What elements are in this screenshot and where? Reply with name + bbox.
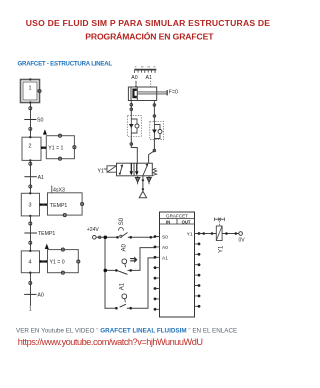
- svg-text:USO DE FLUID SIM P PARA: USO DE FLUID SIM P PARA SIMULAR ESTRUCTU…: [26, 18, 270, 28]
- action box Y1=1: [46, 134, 76, 160]
- step 2: [22, 136, 41, 162]
- svg-text:https://www.youtube.com/watch?: https://www.youtube.com/watch?v=hjhWunuu…: [18, 337, 203, 347]
- switch S0: [116, 217, 155, 238]
- node: [29, 241, 32, 244]
- cylinder port wires: [131, 101, 154, 122]
- exhaust left: [135, 176, 140, 185]
- piston rod: [137, 90, 167, 95]
- action box Y1=0: [48, 248, 80, 274]
- svg-text:4: 4: [29, 260, 32, 266]
- solenoid box: [104, 166, 117, 172]
- wire left port: [130, 101, 132, 116]
- valve bold path left arrow: [130, 163, 134, 175]
- switch A0: [107, 243, 155, 274]
- svg-text:1: 1: [29, 306, 32, 312]
- rising edge arrow step2: [43, 129, 47, 134]
- block input pins: [155, 237, 160, 310]
- node on right port wire: [153, 104, 156, 107]
- node: [29, 162, 32, 165]
- svg-text:A1: A1: [38, 175, 44, 181]
- node on right valve wire: [153, 149, 156, 152]
- node on Y1 wire: [202, 232, 205, 235]
- +24V terminal: [93, 236, 97, 240]
- transition S0: [24, 118, 43, 124]
- rising edge arrow step4: [45, 244, 49, 249]
- svg-text:A0: A0: [131, 75, 137, 81]
- initial step 1: [21, 78, 42, 103]
- svg-text:Y1: Y1: [98, 169, 104, 175]
- svg-text:A1: A1: [146, 75, 152, 81]
- transition A1: [24, 175, 44, 181]
- supply rail wire: [96, 237, 117, 308]
- wire coil to 0V: [222, 233, 239, 235]
- node on supply line: [142, 179, 144, 181]
- step 3: [21, 192, 39, 217]
- svg-text:A0: A0: [37, 293, 43, 299]
- timer label 4sX3: [52, 186, 65, 194]
- wire right valve to 5/2 valve: [149, 140, 155, 164]
- svg-text:3: 3: [29, 203, 32, 209]
- svg-text:A0: A0: [121, 243, 127, 251]
- flow control valve left: [127, 116, 141, 137]
- node on Y1 wire: [211, 232, 214, 235]
- wire Y1 output to coil: [199, 233, 216, 235]
- transition A0: [24, 293, 44, 299]
- node on left port wire: [130, 103, 133, 106]
- wire right port: [153, 101, 155, 122]
- svg-text:OUT: OUT: [182, 219, 191, 224]
- grafcet spine wire: [30, 103, 32, 306]
- svg-text:Y1 = 1: Y1 = 1: [48, 146, 63, 152]
- svg-text:PROGRÁMACIÓN EN GRAFCET: PROGRÁMACIÓN EN GRAFCET: [85, 31, 214, 42]
- flow control valve right: [150, 121, 164, 139]
- svg-text:S0: S0: [37, 118, 43, 124]
- svg-text:A0: A0: [162, 245, 168, 251]
- svg-text:Y1: Y1: [187, 232, 193, 238]
- svg-text:0V: 0V: [239, 238, 246, 244]
- svg-text:VER EN Youtube EL VIDEO " G: VER EN Youtube EL VIDEO " GRAFCET LINEAL…: [16, 327, 237, 334]
- wire left valve to 5/2 valve: [131, 137, 137, 164]
- node: [29, 127, 32, 130]
- junction on +24V rail: [104, 236, 108, 240]
- node on left valve wire: [130, 143, 133, 146]
- block output pins: [195, 234, 200, 307]
- relay coil Y1: [216, 226, 224, 253]
- junction on +24V rail: [104, 269, 108, 273]
- node on 0V wire: [235, 232, 238, 235]
- action link step2: [41, 147, 47, 149]
- action box TEMP1: [48, 193, 84, 217]
- svg-text:1: 1: [29, 86, 32, 92]
- node: [29, 222, 32, 225]
- node: [29, 107, 32, 110]
- node on left port wire: [130, 108, 133, 111]
- valve left box arrow: [119, 164, 123, 174]
- svg-text:A1: A1: [119, 282, 125, 290]
- action link step4: [39, 260, 47, 262]
- 5/2 valve body: [117, 163, 153, 176]
- node on supply line: [142, 188, 144, 190]
- valve link indicator: [215, 218, 225, 227]
- node: [29, 282, 32, 285]
- svg-text:+24V: +24V: [87, 227, 100, 233]
- step 4: [21, 250, 39, 274]
- action link step3: [39, 203, 47, 205]
- node: [29, 185, 32, 188]
- valve bold path right arrow: [135, 163, 139, 175]
- svg-text:GRAFCET - ESTRUCTURA LINEAL: GRAFCET - ESTRUCTURA LINEAL: [18, 61, 113, 68]
- node on 0V wire: [225, 232, 228, 235]
- magnet arrow: [130, 256, 137, 263]
- svg-text:Y1 = 0: Y1 = 0: [50, 260, 65, 266]
- svg-text:TEMP1: TEMP1: [38, 231, 55, 237]
- valve right box arrow: [143, 163, 148, 175]
- exhaust right: [147, 176, 152, 185]
- svg-text:TEMP1: TEMP1: [50, 203, 67, 209]
- svg-text:IN: IN: [166, 219, 170, 224]
- cylinder piston: [132, 89, 136, 99]
- transition TEMP1: [24, 231, 55, 237]
- valve spring: [152, 168, 157, 175]
- node on right port wire: [153, 115, 156, 118]
- ruler scale: [134, 67, 156, 73]
- supply line: [142, 176, 144, 191]
- sensor marker dashes: [135, 81, 137, 85]
- node circle: [99, 236, 101, 238]
- svg-text:S0: S0: [162, 235, 168, 241]
- cylinder body: [128, 87, 156, 101]
- svg-text:Y1: Y1: [218, 245, 224, 253]
- switch A1: [115, 258, 155, 310]
- svg-text:F=0: F=0: [169, 90, 178, 96]
- svg-text:S0: S0: [119, 217, 125, 225]
- GRAFCET block: [160, 212, 195, 317]
- svg-text:A1: A1: [162, 255, 168, 261]
- 0V terminal: [239, 232, 243, 236]
- svg-text:GRAFCET: GRAFCET: [166, 214, 188, 219]
- supply triangle: [139, 191, 146, 198]
- svg-text:2: 2: [29, 144, 32, 150]
